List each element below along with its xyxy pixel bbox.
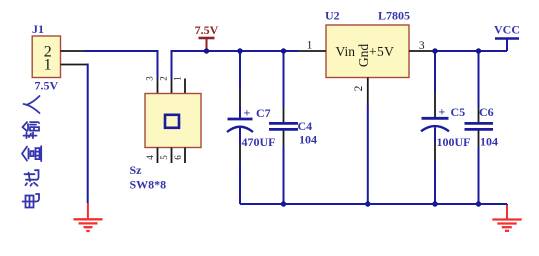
- capacitor C4 labels: [298, 119, 318, 147]
- U2 pin 2 stub: [367, 78, 369, 105]
- wire bus corner down to right ground: [506, 204, 508, 206]
- J1 pin 1 stub: [61, 64, 87, 66]
- switch Sz bottom pin stubs: [158, 148, 186, 164]
- svg-text:C7: C7: [256, 106, 271, 120]
- svg-text:104: 104: [299, 133, 317, 147]
- svg-text:7.5V: 7.5V: [35, 79, 59, 93]
- U2 pin number 2: [353, 85, 365, 91]
- svg-text:SW8*8: SW8*8: [130, 178, 167, 192]
- wire U2 pin3 to VCC and caps: [435, 50, 507, 52]
- svg-text:+: +: [439, 105, 446, 119]
- op-amp U2 designator: [325, 9, 340, 23]
- wire J1 pin2 to switch pin3: [85, 51, 158, 79]
- svg-text:2: 2: [159, 76, 169, 81]
- capacitor C7 labels: [242, 106, 276, 150]
- vertical Chinese note 电池盒输入 (rotated, drawn as strokes): [22, 96, 41, 208]
- wire U2 pin2 down to ground bus: [367, 105, 369, 205]
- node 7.5V junction: [204, 48, 209, 53]
- power symbol 7.5V: [195, 23, 219, 51]
- capacitor C6 labels: [479, 105, 498, 149]
- char 盒: [22, 146, 41, 161]
- switch pin number 5: [159, 155, 169, 160]
- ground (left, under J1): [74, 203, 103, 231]
- svg-text:100UF: 100UF: [437, 135, 471, 149]
- capacitor C6 symbol: [465, 123, 494, 129]
- node C5 top junction: [432, 48, 437, 53]
- J1 value label 7.5V: [35, 79, 59, 93]
- regulator U2 body: [326, 25, 409, 78]
- capacitor C4 symbol: [269, 123, 298, 129]
- char 池: [25, 170, 39, 186]
- node C5 bottom junction: [432, 201, 437, 206]
- svg-text:+: +: [244, 106, 251, 120]
- svg-text:1: 1: [307, 40, 313, 52]
- svg-text:+5V: +5V: [369, 44, 394, 59]
- switch Sz body: [145, 94, 201, 148]
- svg-text:1: 1: [44, 56, 52, 73]
- capacitor C5 bottom wire: [434, 127, 436, 204]
- svg-text:C4: C4: [298, 119, 313, 133]
- capacitor C6 top wire: [478, 51, 480, 123]
- node C6 bottom junction: [476, 201, 481, 206]
- wire J1 pin1 down to ground: [87, 65, 88, 204]
- U2 pin 1 stub: [298, 50, 326, 52]
- svg-text:5: 5: [159, 155, 169, 160]
- char 电: [23, 194, 40, 208]
- J1 pin 2 stub: [61, 50, 85, 52]
- capacitor C4 top wire: [283, 51, 285, 123]
- svg-text:U2: U2: [325, 9, 340, 23]
- svg-text:104: 104: [480, 135, 498, 149]
- node C4 bottom junction: [281, 201, 286, 206]
- svg-text:2: 2: [353, 85, 365, 91]
- capacitor C5 labels: [437, 105, 471, 150]
- node C4 top junction: [281, 48, 286, 53]
- svg-text:C5: C5: [451, 105, 466, 119]
- connector J1 designator label: [32, 22, 44, 36]
- U2 pin 3 stub: [409, 50, 435, 52]
- switch pin number 2: [159, 76, 169, 81]
- switch designator Sz: [130, 163, 143, 177]
- switch pin number 4: [145, 155, 155, 160]
- svg-text:7.5V: 7.5V: [195, 23, 219, 37]
- capacitor C5 top wire: [434, 51, 436, 118]
- svg-text:6: 6: [173, 155, 183, 160]
- svg-text:3: 3: [419, 40, 425, 52]
- char 输: [23, 122, 40, 138]
- capacitor C7 bottom wire: [239, 128, 241, 204]
- switch pin number 6: [173, 155, 183, 160]
- capacitor C5 symbol: [421, 118, 449, 131]
- svg-text:4: 4: [145, 155, 155, 160]
- capacitor C6 bottom wire: [478, 131, 480, 205]
- node pin2 bus junction: [365, 201, 370, 206]
- svg-text:1: 1: [173, 76, 183, 81]
- svg-text:J1: J1: [32, 22, 44, 36]
- switch Sz top pin stubs: [158, 79, 186, 94]
- char 入: [24, 96, 40, 113]
- node C6 top junction: [476, 48, 481, 53]
- svg-text:Vin: Vin: [336, 44, 356, 59]
- svg-text:3: 3: [145, 76, 155, 81]
- node C7 top junction: [237, 48, 242, 53]
- wire switch pin2 up to 7.5V net and U2 pin1: [172, 51, 299, 79]
- switch pin number 1: [173, 76, 183, 81]
- capacitor C7 top wire: [239, 51, 241, 119]
- connector J1 body: [32, 36, 60, 78]
- ground (right, bottom corner): [492, 205, 521, 231]
- U2 value L7805: [378, 9, 410, 23]
- wire ground bus: [240, 203, 507, 205]
- power symbol VCC: [494, 23, 520, 52]
- svg-text:Sz: Sz: [130, 163, 143, 177]
- svg-text:C6: C6: [479, 105, 494, 119]
- U2 pin number 3: [419, 40, 425, 52]
- svg-text:L7805: L7805: [378, 9, 410, 23]
- switch value SW8*8: [130, 178, 167, 192]
- svg-text:470UF: 470UF: [242, 135, 276, 149]
- svg-text:VCC: VCC: [494, 23, 520, 37]
- U2 pin number 1: [307, 40, 313, 52]
- capacitor C4 bottom wire: [283, 131, 285, 205]
- capacitor C7 symbol: [227, 119, 253, 132]
- switch pin number 3: [145, 76, 155, 81]
